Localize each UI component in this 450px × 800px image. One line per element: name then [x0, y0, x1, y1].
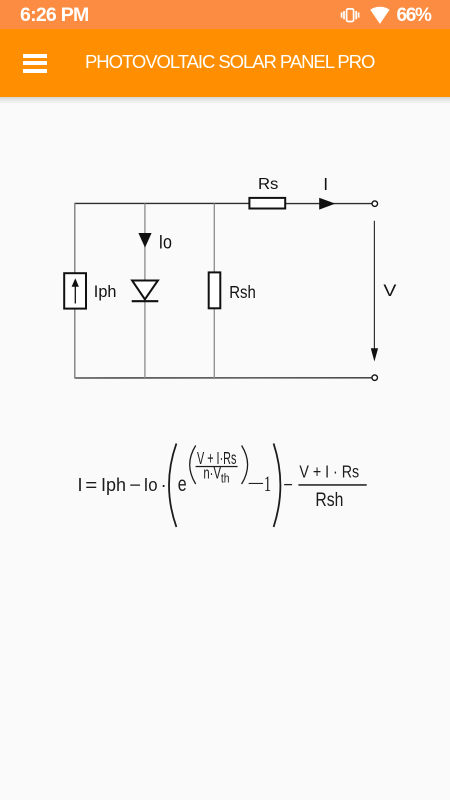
diode Io arrow — [138, 233, 151, 248]
resistor Rsh box — [209, 272, 221, 308]
svg-text:I: I — [323, 174, 328, 194]
svg-text:=: = — [85, 475, 97, 495]
wire top right segment — [285, 203, 371, 205]
terminal top — [372, 201, 378, 207]
app bar — [0, 29, 450, 97]
hamburger menu icon — [23, 54, 48, 73]
Iph inner arrow — [74, 286, 76, 304]
svg-text:−: − — [283, 475, 293, 495]
svg-text:n·V: n·V — [203, 464, 221, 483]
current arrow I — [319, 198, 335, 210]
svg-text:I: I — [78, 475, 83, 495]
svg-text:Rsh: Rsh — [229, 282, 256, 302]
svg-text:Rsh: Rsh — [315, 489, 343, 511]
svg-text:e: e — [178, 473, 187, 496]
svg-text:th: th — [221, 471, 230, 486]
big left paren — [169, 444, 176, 528]
big right paren — [274, 444, 281, 528]
svg-text:1: 1 — [264, 471, 271, 496]
fraction bar — [298, 484, 366, 486]
wire left vertical — [74, 203, 76, 273]
svg-text:Iph: Iph — [101, 475, 126, 495]
svg-text:·: · — [161, 475, 167, 495]
wire diode branch — [144, 203, 146, 280]
exponent fraction bar — [196, 466, 238, 467]
svg-text:Rs: Rs — [258, 176, 278, 193]
resistor Rs box — [249, 198, 285, 209]
svg-text:Io: Io — [144, 475, 158, 495]
current source Iph box — [64, 273, 86, 308]
svg-text:V + I · Rs: V + I · Rs — [299, 461, 359, 481]
svg-text:Iph: Iph — [94, 283, 117, 301]
small right paren (exponent) — [242, 446, 248, 485]
small left paren (exponent) — [190, 446, 196, 485]
V arrow line — [373, 221, 375, 350]
vibrate icon — [338, 8, 361, 23]
svg-text:Io: Io — [159, 232, 173, 254]
wifi icon — [370, 5, 390, 25]
app title — [85, 51, 374, 73]
diode D1 — [132, 281, 158, 300]
wire Rsh branch — [213, 203, 215, 272]
svg-text:−: − — [129, 475, 141, 495]
terminal bottom — [372, 375, 378, 381]
svg-text:−: − — [247, 472, 265, 496]
svg-text:V: V — [383, 282, 396, 300]
status bar — [0, 0, 450, 29]
wire bottom horizontal — [75, 377, 372, 379]
wire top horizontal — [75, 202, 250, 204]
